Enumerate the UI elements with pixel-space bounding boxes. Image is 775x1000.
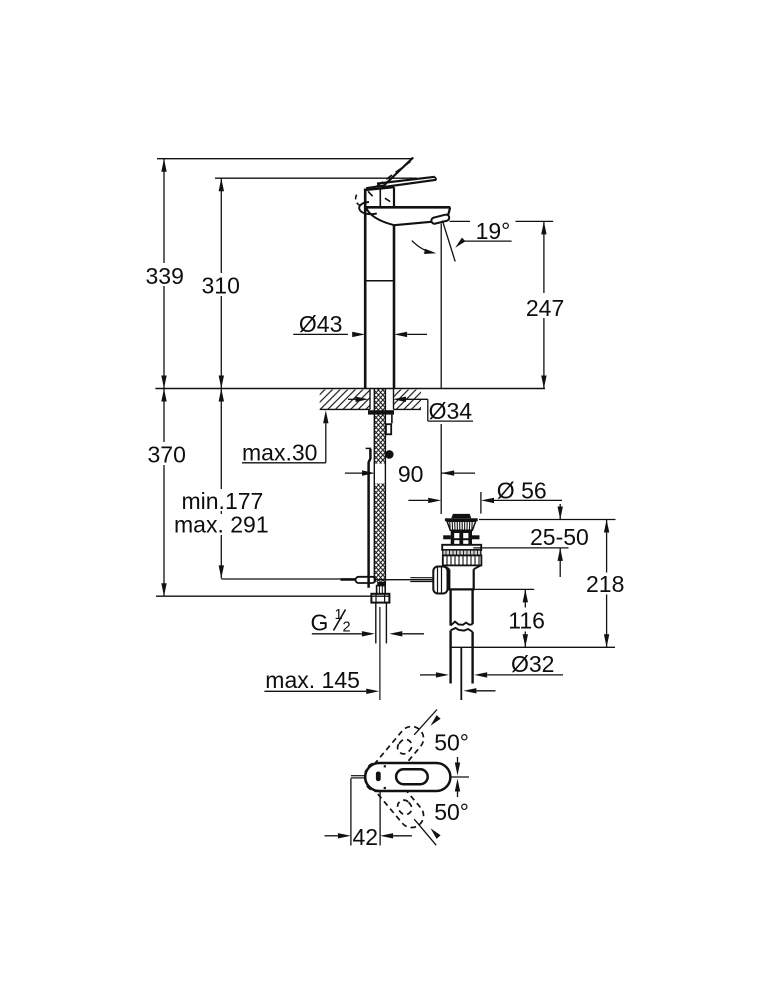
rod to drain bbox=[376, 579, 434, 581]
stream direction line bbox=[442, 221, 455, 262]
extension line 247 top b bbox=[516, 220, 554, 222]
extension line 25-50 top bbox=[479, 519, 616, 521]
dim90 left line bbox=[345, 472, 362, 474]
rod guide tick bbox=[366, 447, 372, 449]
dia56 right extension bbox=[480, 492, 482, 514]
knurl lines bbox=[450, 521, 473, 530]
handle housing top edge bbox=[365, 187, 394, 190]
dia34 right line bbox=[406, 398, 428, 400]
label 370 bg bbox=[145, 442, 188, 465]
angle line upper 50 bbox=[414, 710, 437, 735]
label 247 bg bbox=[523, 293, 566, 318]
block window 1 bbox=[454, 533, 459, 538]
lever ghost inner dash 2 bbox=[385, 198, 390, 201]
break squiggle upper bbox=[451, 622, 473, 626]
block window 2 bbox=[463, 533, 468, 538]
pop-up rod vertical bbox=[369, 449, 371, 588]
lever blade top edge bbox=[377, 177, 435, 184]
faucet body joint line bbox=[365, 280, 394, 282]
detail dot upper bbox=[384, 765, 386, 767]
hose left wall bbox=[373, 389, 375, 583]
arrow dia34 right bbox=[393, 397, 406, 402]
label 218 bg bbox=[584, 573, 628, 595]
ext line 42 right bbox=[379, 792, 381, 846]
arrow pipe end leader bbox=[463, 688, 476, 693]
G pipe right wall bbox=[385, 603, 387, 644]
dimension line 339 bbox=[163, 159, 165, 389]
lever ghost dashed arc bbox=[356, 195, 363, 207]
pivot retention nut bbox=[433, 567, 447, 594]
block window 3 bbox=[454, 540, 459, 544]
arrow dia56 right bbox=[481, 498, 494, 503]
svg-text:19°: 19° bbox=[476, 218, 511, 244]
plan centerline right bbox=[451, 776, 470, 778]
dia56 left line bbox=[408, 499, 428, 501]
under-deck shank and hose bbox=[366, 389, 394, 701]
G nut bbox=[371, 594, 389, 603]
dimension line 116 bbox=[524, 589, 526, 647]
block window 4 bbox=[463, 540, 468, 544]
detail dot lower bbox=[384, 787, 386, 789]
hose ferrule bbox=[377, 582, 386, 586]
handle housing inner line bbox=[379, 189, 381, 207]
extension line 25-50 bottom bbox=[473, 547, 568, 549]
max30 leader vertical bbox=[325, 423, 327, 463]
svg-text:50°: 50° bbox=[434, 799, 469, 825]
svg-text:max. 145: max. 145 bbox=[265, 667, 360, 693]
arrow dia43 left bbox=[352, 332, 365, 337]
lever raised ghost top edge bbox=[366, 158, 413, 189]
break squiggle lower bbox=[451, 628, 473, 632]
arrow 218 bottom bbox=[604, 634, 609, 647]
max30 underline bbox=[242, 462, 326, 464]
arrow 42 left bbox=[338, 833, 351, 838]
spout right end slant bbox=[448, 207, 450, 215]
dia56 right line bbox=[494, 499, 562, 501]
arrow max145 bbox=[366, 689, 379, 694]
rod slot bbox=[376, 772, 381, 782]
svg-text:min.177: min.177 bbox=[182, 488, 264, 514]
block tab right bbox=[472, 535, 480, 539]
hose right wall bbox=[384, 389, 386, 583]
label texts bbox=[143, 218, 628, 693]
dimension line 370 bbox=[163, 389, 165, 597]
top plan view bbox=[325, 710, 470, 850]
svg-text:2: 2 bbox=[343, 620, 351, 636]
svg-text:max. 291: max. 291 bbox=[174, 512, 269, 538]
ext line 42 left bbox=[350, 779, 352, 846]
dimension line 25-50 lower bbox=[559, 548, 561, 577]
svg-text:G: G bbox=[311, 610, 329, 636]
arrow 310 top bbox=[219, 178, 224, 191]
drain cap bbox=[451, 514, 471, 518]
dimension line 310 bbox=[220, 178, 222, 388]
drain taper right bbox=[474, 565, 481, 569]
dimension line 218 bbox=[606, 520, 608, 648]
rod horizontal line bbox=[221, 578, 340, 580]
dimension line 25-50 upper bbox=[559, 504, 561, 520]
arrow upper 50 bbox=[431, 715, 441, 726]
angle leader line bbox=[462, 240, 512, 242]
arrow G half left bbox=[362, 631, 375, 636]
pop-up drain assembly bbox=[433, 514, 481, 700]
arrow 310 bottom bbox=[219, 376, 224, 389]
svg-text:247: 247 bbox=[526, 295, 564, 321]
faucet centerline lower bbox=[379, 607, 381, 700]
spout underside bbox=[394, 222, 432, 226]
angle arc bbox=[412, 241, 434, 253]
arrow 247 bottom bbox=[541, 376, 546, 389]
svg-text:42: 42 bbox=[353, 824, 379, 850]
svg-text:Ø34: Ø34 bbox=[429, 398, 473, 424]
arrow dia56 left bbox=[428, 498, 441, 503]
dia34 box bottom bbox=[428, 420, 473, 422]
body stadium outline bbox=[365, 763, 450, 791]
deck hole right edge bbox=[393, 389, 395, 410]
tailpipe right wall lower bbox=[471, 632, 473, 684]
hose braid upper bbox=[374, 389, 385, 464]
faucet body right edge bbox=[393, 225, 396, 388]
tailpipe left wall upper bbox=[449, 589, 451, 625]
arrow 90 right bbox=[441, 470, 454, 475]
G thread piece bbox=[377, 586, 386, 594]
arrow dia32 right bbox=[474, 672, 487, 677]
drain bottom edge bbox=[448, 588, 475, 590]
body stadium mask bbox=[365, 763, 450, 791]
plan rod top line bbox=[351, 775, 366, 777]
pivot nut curves bbox=[438, 567, 442, 594]
spout top line bbox=[365, 206, 450, 209]
fixing nut bbox=[386, 424, 391, 434]
rod thick segment bbox=[340, 578, 356, 581]
tailpipe left wall lower bbox=[449, 630, 451, 683]
arrow 25-50 top bbox=[558, 507, 563, 520]
arrow G half right bbox=[389, 631, 402, 636]
arc arrow stub lower bbox=[457, 792, 459, 798]
arrow 42 right bbox=[380, 833, 393, 838]
arrow min-max bottom bbox=[219, 565, 224, 578]
dia34 left line bbox=[348, 398, 356, 400]
dia43 label line bbox=[293, 333, 348, 335]
mounting washer bbox=[368, 410, 394, 414]
dimension line min-max bbox=[220, 389, 222, 579]
svg-text:370: 370 bbox=[148, 442, 186, 468]
plan rod bottom line bbox=[351, 777, 366, 779]
aerator bbox=[431, 214, 450, 224]
spout throat curve bbox=[367, 209, 395, 226]
dia32 left line bbox=[420, 674, 436, 676]
deck hatching left bbox=[320, 390, 370, 410]
drain block bbox=[451, 530, 472, 545]
deck hole left edge bbox=[369, 389, 371, 410]
deck bottom line left bbox=[320, 408, 370, 410]
label 116 bg bbox=[506, 608, 548, 632]
pull rod linkage bbox=[221, 577, 433, 583]
dia32 right line bbox=[487, 674, 563, 676]
G nut facets bbox=[376, 594, 385, 603]
lever blade bottom edge bbox=[381, 180, 436, 188]
arrow angle arc bbox=[424, 249, 436, 254]
pipe end leader line bbox=[477, 690, 496, 692]
pivot rod double line bbox=[410, 578, 433, 582]
extension line 339 top bbox=[157, 158, 412, 160]
label max291 bg bbox=[171, 514, 268, 535]
svg-text:218: 218 bbox=[586, 571, 624, 597]
arrow 370 bottom bbox=[161, 583, 166, 596]
lever blade tip bbox=[435, 177, 436, 180]
drain knurled band bbox=[447, 521, 476, 530]
G pipe left wall bbox=[375, 603, 377, 644]
hose clip dot bbox=[385, 450, 394, 459]
tailpipe right wall upper bbox=[471, 589, 473, 624]
bottom reach line bbox=[156, 595, 389, 597]
label 25-50 bg bbox=[528, 523, 594, 547]
max145 dimension line bbox=[264, 690, 366, 692]
svg-text:310: 310 bbox=[202, 273, 240, 299]
handle ghost lower dashed bbox=[360, 758, 428, 833]
dimension line 247 bbox=[543, 221, 545, 388]
arrow dia32 left bbox=[436, 672, 449, 677]
label 339 bg bbox=[143, 263, 186, 286]
drain body left wall bbox=[448, 569, 450, 589]
G half right line bbox=[402, 633, 424, 635]
arrow 90 left bbox=[362, 470, 375, 475]
spout tip extension line lower bbox=[440, 424, 442, 514]
extension line 247 top a bbox=[450, 220, 471, 222]
arrow 218 top bbox=[604, 520, 609, 533]
faucet front view bbox=[356, 158, 451, 389]
arc arrow down bbox=[455, 763, 460, 776]
svg-text:Ø 56: Ø 56 bbox=[497, 477, 547, 503]
hose braid lower bbox=[374, 484, 385, 583]
arrowheads bbox=[161, 159, 609, 694]
arrow 116 top bbox=[523, 589, 528, 602]
lock nut knurl bbox=[447, 555, 479, 565]
extension line 310 top bbox=[215, 177, 417, 179]
arrow 370 top bbox=[161, 389, 166, 402]
G thread lines bbox=[379, 586, 382, 594]
svg-text:25-50: 25-50 bbox=[530, 524, 589, 550]
countertop deck bbox=[155, 389, 545, 410]
handle housing right edge bbox=[393, 187, 395, 207]
arrow 25-50 bottom bbox=[558, 548, 563, 561]
lever ghost inner dash 1 bbox=[368, 191, 373, 196]
arc arrow stub upper bbox=[457, 757, 459, 763]
drain lock nut bbox=[443, 555, 482, 565]
G half left line bbox=[312, 633, 362, 635]
arrow 339 bottom bbox=[161, 376, 166, 389]
dim 42 right line bbox=[393, 835, 412, 837]
dimension construction lines bbox=[156, 159, 616, 692]
svg-text:116: 116 bbox=[508, 608, 545, 634]
drain taper left bbox=[444, 565, 450, 569]
arrow dia43 right bbox=[394, 332, 407, 337]
dia43 right line bbox=[407, 333, 427, 335]
spout outlet oval bbox=[396, 769, 428, 784]
seal band texture bbox=[446, 551, 478, 555]
drain flange bar bbox=[445, 518, 478, 521]
rod link loop bbox=[356, 577, 376, 583]
label 310 bg bbox=[199, 273, 242, 296]
svg-text:max.30: max.30 bbox=[242, 440, 317, 466]
faucet body left edge bbox=[364, 189, 367, 389]
svg-text:90: 90 bbox=[398, 461, 424, 487]
spout tip extension line upper bbox=[440, 224, 442, 389]
fixing bracket edge bbox=[391, 415, 393, 424]
arrow dia34 left bbox=[356, 397, 369, 402]
lever raised ghost bottom dashed bbox=[377, 162, 411, 187]
arc arrow up bbox=[455, 779, 460, 792]
extension line 116 top bbox=[475, 588, 534, 590]
angle line lower 50 bbox=[414, 819, 436, 845]
deck hatching right bbox=[394, 390, 422, 410]
G half slash bbox=[334, 610, 346, 631]
dim90 right line bbox=[441, 472, 475, 474]
drain body right wall bbox=[473, 569, 475, 589]
arrow min-max top bbox=[219, 389, 224, 402]
extension line bottom 218 bbox=[451, 646, 615, 648]
tailpipe center stub bbox=[460, 647, 462, 700]
svg-text:Ø43: Ø43 bbox=[299, 311, 342, 337]
arrow 339 top bbox=[161, 159, 166, 172]
deck bottom line right bbox=[394, 408, 422, 410]
arrow 247 top bbox=[541, 221, 546, 234]
label min177 bg bbox=[179, 489, 265, 511]
arrow 116 bottom bbox=[523, 634, 528, 647]
lever nose beak bbox=[359, 202, 377, 214]
arrow angle leader bbox=[455, 238, 465, 248]
drain flange ring bbox=[442, 545, 481, 550]
dia34 box left bbox=[427, 399, 429, 421]
deck top line bbox=[155, 388, 545, 390]
arrow max30 bbox=[323, 410, 328, 423]
svg-text:1: 1 bbox=[335, 607, 343, 623]
arrow lower 50 bbox=[431, 828, 441, 839]
svg-text:50°: 50° bbox=[434, 730, 469, 756]
svg-text:Ø32: Ø32 bbox=[511, 651, 554, 677]
block tab left bbox=[443, 535, 451, 539]
dim 42 left line bbox=[325, 835, 338, 837]
drain seal band bbox=[443, 550, 481, 555]
handle ghost upper dashed bbox=[360, 722, 428, 797]
svg-text:339: 339 bbox=[146, 263, 184, 289]
